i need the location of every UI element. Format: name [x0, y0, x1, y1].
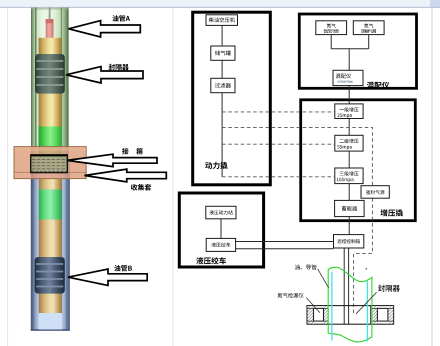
wire stage1 to stage2 [348, 119, 350, 136]
label packer (flange) [378, 285, 400, 292]
label coupling [122, 148, 129, 154]
page edge right [431, 8, 433, 346]
packer flange plate [307, 306, 394, 325]
power skid label [205, 162, 227, 169]
box third stage boost [335, 168, 363, 184]
gold tubing upper [39, 38, 62, 158]
box nitrogen pressurizing medium [316, 21, 347, 35]
wire filter down [221, 93, 223, 177]
booster skid outer box [301, 100, 416, 221]
box remote control [334, 235, 364, 248]
page edge left [7, 8, 9, 346]
collector sleeve block [14, 147, 86, 179]
arrow packer [66, 67, 143, 83]
top toolbar band [0, 0, 440, 7]
wire nitrogen2 down [368, 35, 370, 49]
flange left bolt section (hatched) [308, 306, 314, 324]
dashed air line to seal gas [222, 127, 372, 185]
box seal gas source [361, 186, 389, 199]
wire winch to remote box (double) [236, 241, 334, 243]
packer upper (ribbed) [35, 54, 65, 94]
wire to mixer [348, 49, 350, 71]
wire nitrogen1 down [330, 35, 332, 49]
wire at wellhead [49, 8, 51, 21]
oil conduit green break-out [328, 267, 372, 342]
box filter [211, 78, 235, 92]
dashed air line to stage2 [222, 143, 335, 145]
box nitrogen transport gas source [353, 21, 384, 35]
tubing A pink stub [46, 19, 54, 39]
wellbore outer casing (blue lower) [31, 160, 70, 331]
mixer unit label [367, 82, 389, 89]
arrow tubing A [69, 21, 141, 37]
node dot [366, 268, 368, 270]
wire stage2 to stage3 [348, 151, 350, 168]
box air storage tank [211, 46, 235, 60]
hydraulic winch label [196, 257, 226, 264]
wire tank to filter [221, 60, 223, 78]
inner fluid below tubing [39, 313, 62, 330]
green tubing segment lower [39, 190, 62, 220]
coupling rect [31, 155, 68, 173]
label collector sleeve [131, 184, 151, 191]
wire join horizontal [331, 48, 369, 50]
gold tubing lower [39, 179, 62, 314]
packer lower (ribbed, tubing B) [35, 257, 65, 294]
booster skid label [381, 209, 403, 216]
hydraulic winch outer box [179, 193, 263, 267]
arrow tubing B [68, 269, 147, 285]
box diesel air compressor [206, 15, 238, 26]
dashed air line to stage1 [222, 111, 335, 113]
label nitrogen leak detector [278, 293, 304, 298]
wire accumulator to remote box [348, 217, 350, 235]
box hydraulic power station [206, 206, 236, 219]
label packer [109, 64, 129, 70]
box mixing instrument [333, 70, 363, 85]
power skid outer box [193, 12, 271, 185]
green tubing segment upper [39, 127, 62, 158]
wellbore outer casing (green upper) [31, 8, 69, 161]
cyan conduit lines [331, 272, 333, 341]
box first stage boost [335, 104, 363, 119]
arrow collector sleeve [85, 169, 167, 182]
box hydraulic winch [206, 238, 235, 251]
dashed air line to stage3 [222, 176, 335, 178]
mixer unit outer box [299, 14, 416, 88]
box second stage boost [335, 135, 363, 151]
box accumulator [335, 200, 365, 216]
wire power station to winch [220, 219, 222, 239]
wire stage3 to accumulator [348, 184, 350, 201]
label tubing B [114, 265, 132, 271]
label oil conduit [295, 265, 317, 270]
arrow coupling [67, 154, 157, 166]
page separator middle [172, 8, 174, 346]
wire compressor to tank [221, 25, 223, 46]
tubing remote box to packer flange (double) [343, 248, 345, 324]
label tubing A [112, 15, 130, 21]
dashed seal gas line to packer [354, 198, 373, 313]
wire mixer to stage1 [348, 86, 350, 104]
flange right bolt section (hatched) [371, 306, 377, 324]
wellbore bottom edge [31, 329, 70, 331]
